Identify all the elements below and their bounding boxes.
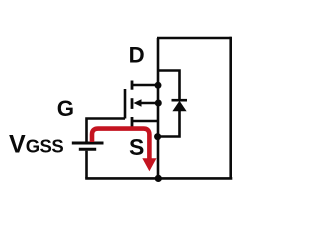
svg-text:S: S <box>129 134 144 160</box>
svg-text:G: G <box>57 96 74 121</box>
wire: drain stub to bus <box>132 84 158 87</box>
wire: source stub to bus <box>132 120 158 123</box>
wire: diode branch bottom <box>158 111 180 137</box>
battery VGSS long positive plate <box>72 142 104 145</box>
diode D1 triangle (anode, pointing up) <box>172 101 186 111</box>
wire: outer loop right edge <box>229 37 232 179</box>
diode D1 cathode bar <box>172 99 188 102</box>
mosfet Q1 body channel bar <box>131 98 134 109</box>
mosfet Q1 source channel bar <box>131 117 134 129</box>
battery VGSS short negative plate <box>79 148 96 151</box>
mosfet Q1 gate electrode line <box>124 89 127 119</box>
wire: body stub to bus <box>140 102 158 105</box>
wire: bottom source rail <box>85 177 232 180</box>
wire: diode branch top <box>158 71 180 100</box>
wire: vertical drain-source bus <box>157 38 160 178</box>
node: drain junction dot <box>155 82 162 89</box>
mosfet Q1 body arrow pointing to channel <box>134 99 142 107</box>
wire: outer short-circuit loop top edge D to right <box>157 37 232 40</box>
svg-text:VGSS: VGSS <box>9 130 63 158</box>
node: body junction dot <box>155 100 162 107</box>
battery VGSS negative lead wire <box>85 151 88 179</box>
red current arrowhead <box>142 158 156 171</box>
mosfet Q1 drain channel bar <box>131 81 134 90</box>
svg-text:D: D <box>129 42 145 67</box>
wire: red surge current path from battery + to source <box>92 129 149 159</box>
node: bottom rail junction dot <box>155 175 162 182</box>
node: diode anode junction dot <box>154 133 161 140</box>
battery VGSS positive lead wire <box>87 119 126 142</box>
